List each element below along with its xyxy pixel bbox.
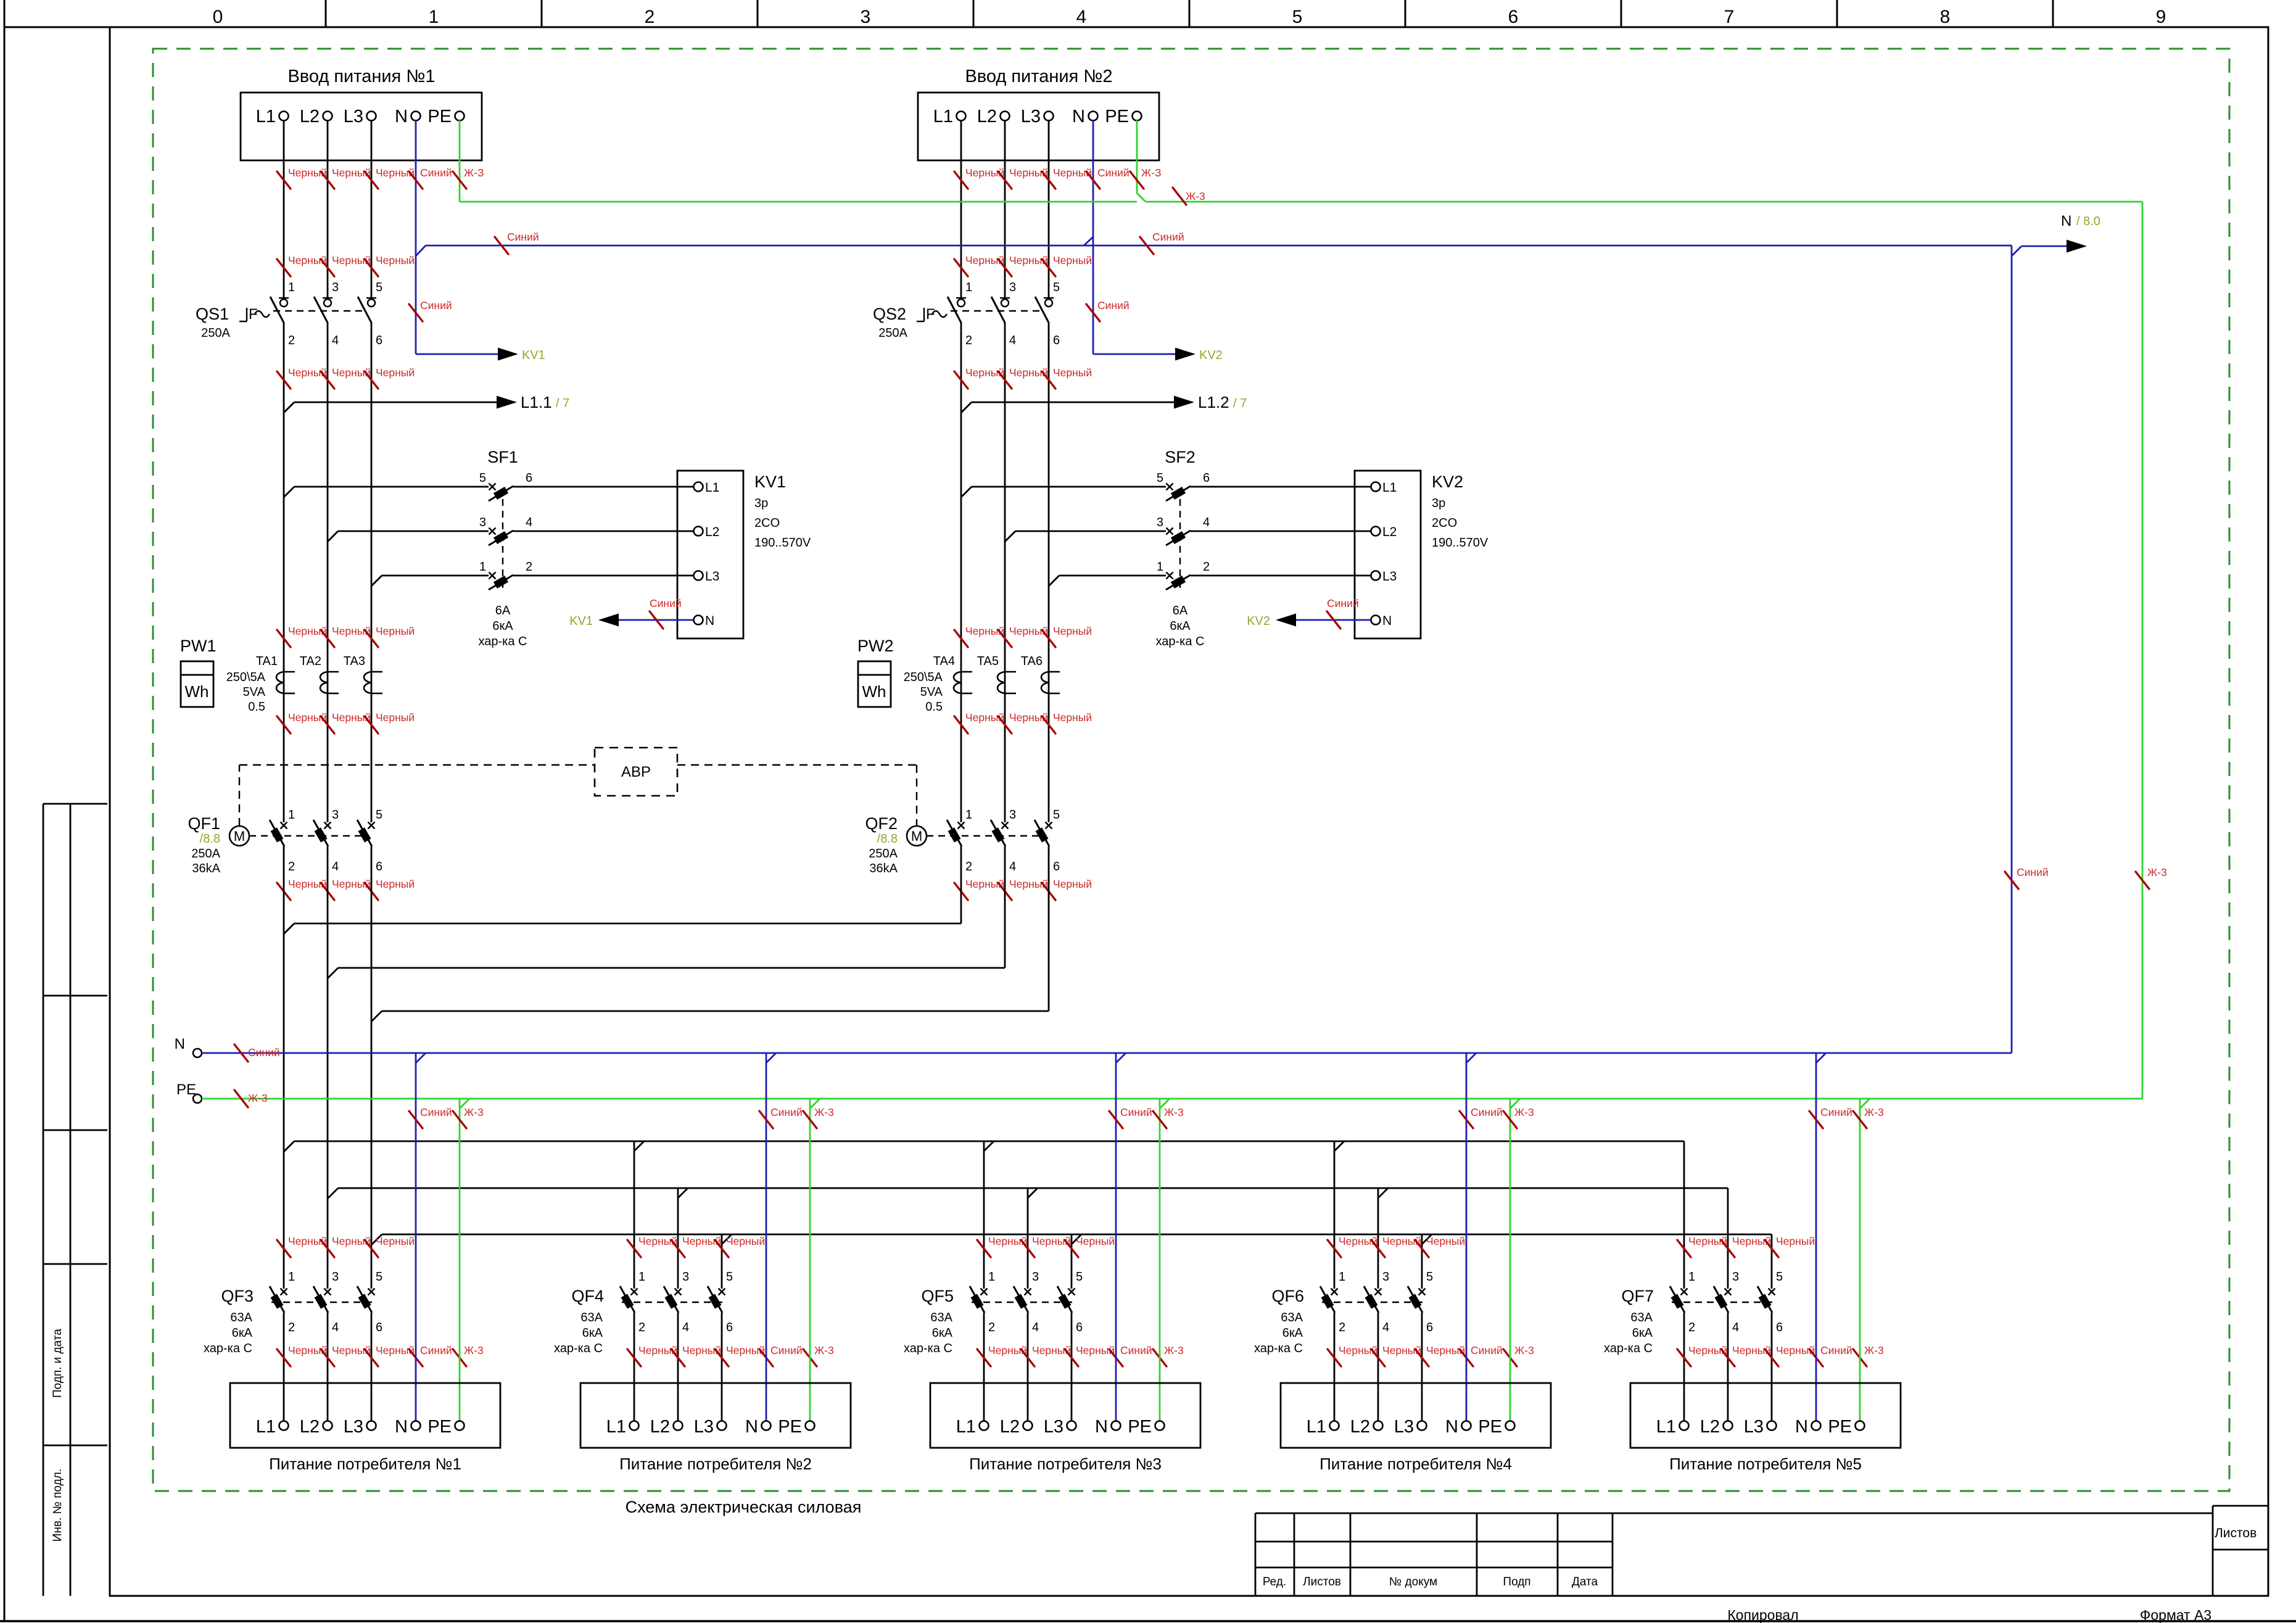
svg-text:9: 9	[2156, 7, 2166, 27]
svg-text:6кА: 6кА	[1170, 619, 1191, 633]
svg-text:190..570V: 190..570V	[754, 536, 811, 550]
power input box Ввод питания №1	[241, 93, 482, 160]
svg-text:6: 6	[726, 1321, 733, 1334]
svg-text:Черный: Черный	[726, 1235, 765, 1247]
svg-text:250A: 250A	[878, 326, 907, 340]
svg-text:L1: L1	[933, 107, 953, 126]
svg-text:Ж-3: Ж-3	[1514, 1106, 1534, 1118]
svg-text:Синий: Синий	[650, 597, 682, 609]
svg-text:N: N	[705, 614, 714, 628]
svg-text:L2: L2	[1700, 1417, 1720, 1437]
svg-text:6: 6	[376, 334, 382, 347]
svg-text:Черный: Черный	[1053, 711, 1092, 724]
svg-text:Черный: Черный	[376, 1235, 415, 1247]
wire colour marks below input box 2	[954, 171, 968, 189]
svg-text:63А: 63А	[930, 1311, 952, 1324]
svg-text:L1: L1	[1382, 481, 1397, 495]
svg-text:3: 3	[1732, 1270, 1739, 1284]
svg-text:1: 1	[288, 808, 295, 822]
wire colour marks above QF3	[277, 1240, 291, 1257]
svg-text:L3: L3	[344, 107, 363, 126]
svg-text:Ввод питания №2: Ввод питания №2	[965, 67, 1112, 86]
svg-text:N: N	[395, 107, 408, 126]
svg-text:3: 3	[1009, 808, 1016, 822]
svg-text:TA5: TA5	[977, 655, 999, 668]
voltage relay KV1 box	[677, 471, 743, 638]
N bus top run (blue)	[416, 246, 426, 256]
QF6 output wires to consumer box	[1334, 1313, 1336, 1421]
svg-text:Формат А3: Формат А3	[2140, 1607, 2211, 1623]
QS2 mechanical link (dashed)	[951, 310, 1043, 312]
wire N1 (blue) from input box	[415, 120, 417, 354]
svg-text:Черный: Черный	[1053, 625, 1092, 637]
input 2 phase wires to QS2	[960, 120, 962, 299]
svg-text:L3: L3	[344, 1417, 363, 1437]
svg-text:M: M	[234, 828, 245, 844]
svg-text:L2: L2	[300, 107, 320, 126]
QF6 mechanical link (dashed)	[1322, 1302, 1424, 1303]
QF1 poles	[281, 822, 287, 829]
svg-text:Ж-3: Ж-3	[1864, 1344, 1884, 1357]
svg-text:PE: PE	[1478, 1417, 1502, 1437]
svg-text:Ж-З: Ж-З	[464, 167, 484, 179]
wire colour marks below TA1	[277, 716, 291, 733]
svg-text:Схема электрическая силовая: Схема электрическая силовая	[626, 1498, 862, 1516]
QF2 poles	[958, 822, 965, 829]
QF6 poles	[1331, 1289, 1338, 1295]
svg-text:Синий: Синий	[2017, 866, 2049, 878]
N top-to-bottom right riser (blue)	[2011, 246, 2013, 1053]
svg-text:Копировал: Копировал	[1727, 1607, 1798, 1623]
wire N1 vertical colour mark Синий	[409, 304, 423, 321]
SF2 mechanical link (dashed)	[1179, 499, 1181, 588]
distribution bus L1	[294, 1141, 1684, 1142]
svg-text:6А: 6А	[495, 604, 511, 617]
QF4 poles	[631, 1289, 638, 1295]
svg-text:KV1: KV1	[754, 473, 786, 491]
svg-text:6: 6	[1053, 334, 1060, 347]
PE top run (green)	[460, 201, 1137, 203]
N sheet reference arrow N /8.0	[2012, 246, 2021, 256]
svg-text:N: N	[1095, 1417, 1108, 1437]
svg-text:Черный: Черный	[376, 878, 415, 890]
svg-text:6: 6	[526, 471, 532, 485]
wire colour marks below QF3	[277, 1349, 291, 1366]
svg-text:L1.2: L1.2	[1198, 393, 1229, 411]
svg-text:Черный: Черный	[1053, 878, 1092, 890]
svg-text:8: 8	[1940, 7, 1951, 27]
svg-text:Черный: Черный	[376, 625, 415, 637]
svg-text:0.5: 0.5	[925, 700, 943, 714]
svg-text:L1: L1	[256, 107, 276, 126]
ruler top line	[4, 27, 2268, 28]
svg-text:KV2: KV2	[1247, 614, 1270, 628]
svg-text:N: N	[1382, 614, 1392, 628]
wire colour marks above QF4	[627, 1240, 641, 1257]
svg-text:Wh: Wh	[185, 682, 209, 701]
svg-text:№ докум: № докум	[1389, 1576, 1437, 1588]
svg-text:L1.1: L1.1	[521, 393, 552, 411]
svg-text:2: 2	[988, 1321, 995, 1334]
PE drop to consumer 5 (green)	[1859, 1099, 1861, 1421]
svg-text:1: 1	[988, 1270, 995, 1284]
QF2 output wires to tie bus	[960, 846, 962, 923]
svg-text:3: 3	[861, 7, 871, 27]
svg-text:PE: PE	[1128, 1417, 1152, 1437]
svg-text:N: N	[2061, 213, 2071, 229]
svg-text:250A: 250A	[201, 326, 230, 340]
svg-text:5VA: 5VA	[920, 685, 943, 699]
svg-text:L2: L2	[1350, 1417, 1370, 1437]
N drop to consumer 2 (blue)	[766, 1053, 767, 1421]
SF2 poles	[1167, 484, 1173, 490]
svg-text:/ 7: / 7	[556, 397, 569, 410]
svg-text:хар-ка С: хар-ка С	[1254, 1342, 1303, 1355]
svg-text:N: N	[175, 1036, 185, 1052]
svg-text:5: 5	[479, 471, 486, 485]
KV1 coil feed arrow (blue)	[416, 353, 498, 355]
PE drop to consumer 2 (green)	[809, 1099, 811, 1421]
svg-text:6: 6	[1203, 471, 1210, 485]
QS1 mechanical link (dashed)	[273, 310, 365, 312]
QF5 mechanical link (dashed)	[972, 1302, 1074, 1303]
PE right riser (green)	[2142, 202, 2144, 1099]
automatic transfer switch block АВР	[595, 748, 677, 796]
distribution bus L2	[338, 1187, 1728, 1189]
svg-text:Ж-3: Ж-3	[464, 1106, 484, 1118]
svg-text:Ж-3: Ж-3	[1186, 190, 1205, 202]
svg-text:PE: PE	[1828, 1417, 1852, 1437]
svg-text:63А: 63А	[1630, 1311, 1653, 1324]
svg-text:TA4: TA4	[933, 655, 955, 668]
svg-text:6: 6	[1076, 1321, 1083, 1334]
svg-text:36kA: 36kA	[869, 862, 898, 875]
svg-text:5: 5	[376, 1270, 382, 1284]
consumer box Питание потребителя №4	[1281, 1383, 1551, 1448]
svg-text:QF3: QF3	[221, 1287, 254, 1305]
svg-text:63А: 63А	[1281, 1311, 1303, 1324]
wire colour marks above TA4	[954, 630, 968, 647]
svg-text:Подп. и дата: Подп. и дата	[51, 1329, 64, 1398]
svg-text:PE: PE	[1105, 107, 1129, 126]
svg-text:6кА: 6кА	[492, 619, 513, 633]
svg-text:2: 2	[288, 1321, 295, 1334]
svg-text:6кА: 6кА	[582, 1326, 603, 1340]
svg-text:TA6: TA6	[1021, 655, 1043, 668]
svg-text:2: 2	[526, 560, 532, 574]
svg-text:4: 4	[526, 516, 532, 529]
svg-text:АВР: АВР	[621, 764, 651, 780]
svg-text:хар-ка С: хар-ка С	[204, 1342, 252, 1355]
svg-text:Ж-3: Ж-3	[1514, 1344, 1534, 1357]
svg-text:/8.8: /8.8	[200, 832, 220, 846]
svg-text:Черный: Черный	[1053, 366, 1092, 379]
svg-text:Питание потребителя №2: Питание потребителя №2	[619, 1455, 812, 1473]
svg-text:L1: L1	[1307, 1417, 1326, 1437]
N drop to consumer 1 (blue)	[415, 1053, 417, 1421]
svg-text:Синий: Синий	[1471, 1106, 1503, 1118]
svg-text:хар-ка С: хар-ка С	[1604, 1342, 1653, 1355]
svg-text:Ж-3: Ж-3	[1164, 1344, 1184, 1357]
wire N2 vertical colour mark Синий	[1086, 304, 1100, 321]
svg-text:Черный: Черный	[1076, 1235, 1115, 1247]
QF7 poles	[1681, 1289, 1688, 1295]
svg-text:Ж-З: Ж-З	[1141, 167, 1162, 179]
svg-text:2: 2	[638, 1321, 645, 1334]
QF2 motor drive M	[907, 826, 927, 846]
svg-text:L1: L1	[1656, 1417, 1676, 1437]
QF1 motor drive M	[229, 826, 249, 846]
svg-text:Синий: Синий	[420, 1344, 452, 1357]
svg-text:2: 2	[1203, 560, 1210, 574]
svg-text:Черный: Черный	[1053, 254, 1092, 266]
svg-text:Листов: Листов	[2215, 1526, 2257, 1540]
svg-text:Ред.: Ред.	[1263, 1576, 1286, 1588]
QS1 output phase wires	[283, 322, 285, 822]
svg-text:L1: L1	[956, 1417, 976, 1437]
svg-text:Черный: Черный	[1776, 1235, 1815, 1247]
svg-text:L2: L2	[650, 1417, 670, 1437]
svg-text:4: 4	[1732, 1321, 1739, 1334]
wire PE1 (green) from input box	[459, 120, 461, 202]
svg-text:1: 1	[1339, 1270, 1345, 1284]
svg-text:6: 6	[376, 1321, 382, 1334]
svg-text:Синий: Синий	[1471, 1344, 1503, 1357]
svg-text:4: 4	[1009, 860, 1016, 873]
distribution bus L3	[382, 1234, 1772, 1236]
svg-text:0.5: 0.5	[248, 700, 265, 714]
branch L1.2 with arrow	[961, 402, 972, 413]
svg-text:2: 2	[965, 334, 972, 347]
svg-text:/ 7: / 7	[1233, 397, 1247, 410]
wire colour marks above QS1	[277, 259, 291, 276]
svg-text:190..570V: 190..570V	[1432, 536, 1489, 550]
wire colour marks below QF2	[954, 883, 968, 900]
ruler ticks	[325, 0, 327, 27]
svg-text:хар-ка С: хар-ка С	[554, 1342, 603, 1355]
svg-text:Ж-3: Ж-3	[1864, 1106, 1884, 1118]
svg-text:5: 5	[726, 1270, 733, 1284]
wire colour marks above TA1	[277, 630, 291, 647]
PE drop to consumer 3 (green)	[1159, 1099, 1161, 1421]
svg-text:L1: L1	[606, 1417, 626, 1437]
svg-text:0: 0	[213, 7, 223, 27]
svg-text:3p: 3p	[754, 497, 768, 510]
svg-text:QF7: QF7	[1621, 1287, 1654, 1305]
svg-text:Черный: Черный	[1426, 1235, 1465, 1247]
svg-text:Синий: Синий	[770, 1344, 803, 1357]
svg-text:QS1: QS1	[196, 305, 229, 323]
svg-text:PE: PE	[778, 1417, 802, 1437]
dashed link ABP to QF2 drive	[677, 764, 917, 766]
svg-text:Синий: Синий	[1120, 1344, 1152, 1357]
svg-text:1: 1	[1688, 1270, 1695, 1284]
svg-text:3: 3	[1157, 516, 1163, 529]
svg-text:2: 2	[965, 860, 972, 873]
svg-text:/ 8.0: / 8.0	[2076, 215, 2100, 228]
svg-text:1: 1	[429, 7, 439, 27]
svg-text:TA2: TA2	[300, 655, 321, 668]
svg-text:7: 7	[1724, 7, 1735, 27]
svg-text:F: F	[249, 306, 258, 323]
svg-text:1: 1	[965, 808, 972, 822]
svg-text:2: 2	[645, 7, 655, 27]
svg-text:5: 5	[376, 808, 382, 822]
svg-text:KV2: KV2	[1199, 349, 1223, 362]
svg-text:L3: L3	[1021, 107, 1041, 126]
wire colour marks below input box 1	[277, 171, 291, 189]
svg-text:6кА: 6кА	[232, 1326, 253, 1340]
svg-text:3: 3	[1382, 1270, 1389, 1284]
KV2 terminals L1 L2 L3 N	[1371, 482, 1381, 492]
svg-text:Ж-3: Ж-3	[248, 1092, 268, 1104]
QS2 poles	[956, 297, 966, 299]
svg-text:Питание потребителя №1: Питание потребителя №1	[269, 1455, 461, 1473]
QF3 poles	[281, 1289, 287, 1295]
QF1 mechanical link (dashed)	[249, 835, 365, 836]
svg-text:Ввод питания №1: Ввод питания №1	[287, 67, 435, 86]
svg-text:4: 4	[682, 1321, 689, 1334]
KV1 N wire with arrow (blue)	[618, 619, 693, 621]
svg-text:4: 4	[332, 334, 339, 347]
QS1 poles	[279, 297, 289, 299]
wire colour marks below QF6	[1328, 1349, 1341, 1366]
svg-text:L1: L1	[256, 1417, 276, 1437]
svg-text:3: 3	[682, 1270, 689, 1284]
KV1 terminals L1 L2 L3 N	[694, 482, 703, 492]
consumer box Питание потребителя №1	[230, 1383, 500, 1448]
svg-text:5: 5	[1053, 808, 1060, 822]
N bus (blue)	[202, 1052, 2012, 1054]
svg-text:5: 5	[1776, 1270, 1783, 1284]
power input box Ввод питания №2	[918, 93, 1159, 160]
svg-text:хар-ка С: хар-ка С	[479, 635, 527, 648]
svg-text:2: 2	[288, 334, 295, 347]
svg-text:1: 1	[479, 560, 486, 574]
svg-text:SF1: SF1	[487, 448, 518, 466]
QS2 output phase wires	[960, 322, 962, 822]
svg-text:4: 4	[1203, 516, 1210, 529]
wire colour marks below QF5	[977, 1349, 991, 1366]
svg-text:3: 3	[479, 516, 486, 529]
QS1 manual drive symbol	[239, 321, 247, 322]
svg-text:2: 2	[1688, 1321, 1695, 1334]
svg-text:N: N	[1795, 1417, 1808, 1437]
svg-text:4: 4	[1009, 334, 1016, 347]
svg-text:6: 6	[376, 860, 382, 873]
svg-text:Синий: Синий	[248, 1046, 280, 1059]
svg-text:5: 5	[1076, 1270, 1083, 1284]
svg-text:Ж-3: Ж-3	[1164, 1106, 1184, 1118]
branch L1.1 with arrow	[284, 402, 294, 413]
N2 join chamfer	[1084, 237, 1093, 246]
wire colour marks above QF7	[1677, 1240, 1691, 1257]
svg-text:Ж-3: Ж-3	[464, 1344, 484, 1357]
svg-text:QF1: QF1	[188, 814, 220, 833]
svg-text:3: 3	[1032, 1270, 1039, 1284]
svg-text:/8.8: /8.8	[877, 832, 898, 846]
svg-text:6кА: 6кА	[1632, 1326, 1653, 1340]
QF4 output wires to consumer box	[634, 1313, 635, 1421]
svg-text:L3: L3	[1744, 1417, 1764, 1437]
svg-text:6: 6	[1776, 1321, 1783, 1334]
QF3 output wires to consumer box	[283, 1313, 285, 1421]
PE drop to consumer 1 (green)	[459, 1099, 461, 1421]
svg-text:Синий: Синий	[1820, 1344, 1852, 1357]
consumer box Питание потребителя №5	[1630, 1383, 1901, 1448]
QF5 output wires to consumer box	[983, 1313, 985, 1421]
svg-text:6: 6	[1426, 1321, 1433, 1334]
svg-text:Питание потребителя №3: Питание потребителя №3	[969, 1455, 1162, 1473]
svg-text:3p: 3p	[1432, 497, 1445, 510]
KV2 coil feed arrow (blue)	[1093, 353, 1176, 355]
svg-text:250\5A: 250\5A	[904, 671, 943, 684]
wire colour marks above QF6	[1328, 1240, 1341, 1257]
svg-text:Синий: Синий	[420, 299, 452, 312]
tie bus chamfer joints	[284, 923, 294, 934]
svg-text:PE: PE	[176, 1081, 196, 1098]
svg-text:3: 3	[332, 1270, 339, 1284]
distribution bus drops to QF4-QF7	[634, 1141, 644, 1151]
svg-text:TA3: TA3	[344, 655, 365, 668]
svg-text:4: 4	[332, 1321, 339, 1334]
svg-text:Синий: Синий	[1097, 299, 1129, 312]
svg-text:6кА: 6кА	[932, 1326, 953, 1340]
svg-text:Ж-3: Ж-3	[2147, 866, 2167, 878]
wire PE2 (green) from input box	[1136, 120, 1138, 194]
svg-text:N: N	[745, 1417, 758, 1437]
svg-text:4: 4	[1382, 1321, 1389, 1334]
svg-text:L2: L2	[1382, 525, 1397, 539]
sheet left edge	[4, 0, 6, 1621]
svg-text:250A: 250A	[869, 847, 898, 861]
wire colour marks below QF4	[627, 1349, 641, 1366]
svg-text:Черный: Черный	[376, 711, 415, 724]
svg-text:Синий: Синий	[1820, 1106, 1852, 1118]
svg-text:Синий: Синий	[420, 1106, 452, 1118]
dashed link QF1 drive to ABP	[239, 765, 240, 826]
svg-text:Wh: Wh	[862, 682, 886, 701]
svg-text:N: N	[1072, 107, 1085, 126]
svg-text:F: F	[926, 306, 935, 323]
svg-text:1: 1	[288, 1270, 295, 1284]
svg-text:QS2: QS2	[873, 305, 906, 323]
svg-text:Питание потребителя №4: Питание потребителя №4	[1319, 1455, 1512, 1473]
QF5 poles	[981, 1289, 988, 1295]
svg-text:Листов: Листов	[1303, 1576, 1341, 1588]
svg-text:Черный: Черный	[376, 366, 415, 379]
svg-text:PW2: PW2	[857, 637, 894, 655]
svg-text:Синий: Синий	[420, 167, 452, 179]
svg-text:2: 2	[1339, 1321, 1345, 1334]
svg-text:63А: 63А	[230, 1311, 252, 1324]
QF3 mechanical link (dashed)	[271, 1302, 374, 1303]
left margin block	[43, 804, 44, 1596]
svg-text:N: N	[395, 1417, 408, 1437]
consumer box Питание потребителя №3	[930, 1383, 1200, 1448]
wire colour marks above QS2	[954, 259, 968, 276]
svg-text:250\5A: 250\5A	[226, 671, 266, 684]
svg-text:250A: 250A	[191, 847, 220, 861]
svg-text:L3: L3	[705, 569, 719, 584]
svg-text:Синий: Синий	[1152, 231, 1184, 243]
svg-text:3: 3	[332, 281, 339, 294]
SF1 mechanical link (dashed)	[502, 499, 503, 588]
svg-text:Инв. № подл.: Инв. № подл.	[51, 1469, 64, 1542]
svg-text:M: M	[911, 828, 922, 844]
svg-text:Синий: Синий	[1120, 1106, 1152, 1118]
svg-text:L3: L3	[1382, 569, 1397, 584]
